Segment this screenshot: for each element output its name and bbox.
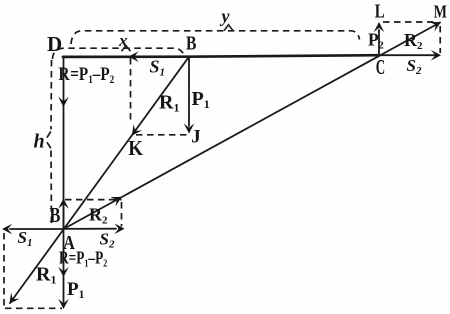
caret under label x — [122, 46, 131, 51]
wire P2 at C — [378, 30, 380, 55]
dashed right edge M box at C — [439, 26, 441, 53]
arrow S2 at A — [114, 223, 124, 234]
dashed left edge of R1 box at A — [3, 233, 5, 308]
brace y over D-C — [71, 31, 360, 44]
dashed line L-M at C — [383, 21, 436, 23]
dashed vertical S1-K at B parallelogram — [130, 58, 132, 123]
svg-text:R=P1–P2: R=P1–P2 — [59, 63, 115, 86]
wire force up at A — [63, 206, 65, 229]
arrow S1 at B — [129, 51, 139, 62]
label L — [375, 0, 385, 22]
wire S1 at A — [10, 228, 64, 230]
label B at point above A — [50, 204, 61, 227]
brace h left side — [50, 60, 53, 130]
label K — [128, 137, 143, 160]
arrow R=P1-P2 at D — [58, 97, 69, 107]
svg-text:y: y — [220, 6, 231, 26]
arrow force up at A — [58, 199, 69, 209]
svg-text:K: K — [128, 137, 143, 160]
caret under label y — [224, 25, 233, 31]
label C — [376, 55, 385, 79]
label M — [434, 3, 447, 22]
brace x over D-B — [53, 48, 185, 59]
label R=P1-P2 at A — [59, 249, 107, 270]
arrow S1 at A — [2, 224, 12, 235]
wire P1 at B — [188, 57, 190, 126]
dashed top edge of R2 box at A — [65, 199, 122, 201]
arrow R at A — [58, 267, 69, 277]
svg-text:h: h — [34, 130, 45, 152]
arrow P1 at A — [58, 299, 69, 309]
dashed right edge of R2 box at A — [121, 202, 123, 227]
arrow P1 at B — [184, 123, 195, 133]
label A — [63, 231, 75, 253]
arrow R2 at C (point M) — [429, 17, 443, 31]
svg-text:B: B — [186, 31, 196, 53]
dashed horizontal K-J — [136, 134, 187, 136]
arrow R2 at A — [110, 192, 124, 206]
svg-text:x: x — [118, 31, 128, 50]
long diagonal line B-K-A-R1tip — [10, 57, 189, 303]
wire S1 at B — [137, 56, 189, 58]
left vertical line D to A to P1 tip — [63, 57, 65, 303]
arrow S2 at C — [431, 50, 441, 61]
arrow R1 at B (point K) — [128, 124, 143, 138]
arrow R1 at A — [5, 292, 20, 306]
svg-text:J: J — [191, 127, 201, 148]
svg-text:B: B — [50, 204, 61, 227]
arrow P2 at C — [374, 22, 385, 32]
label R=P1-P2 at D — [59, 63, 115, 86]
wire S2 at A — [64, 228, 117, 230]
svg-text:C: C — [376, 55, 385, 79]
brace h notch — [47, 132, 51, 149]
svg-text:R=P1–P2: R=P1–P2 — [59, 249, 107, 270]
dashed bottom edge of R1 box at A — [5, 307, 62, 309]
svg-text:D: D — [47, 32, 62, 56]
wire S2 extension at C — [379, 54, 434, 56]
svg-text:L: L — [375, 0, 385, 22]
svg-text:M: M — [434, 3, 447, 22]
long diagonal line A-C-M — [64, 23, 441, 230]
label B — [186, 31, 196, 53]
main beam line D-B-C — [63, 55, 379, 57]
